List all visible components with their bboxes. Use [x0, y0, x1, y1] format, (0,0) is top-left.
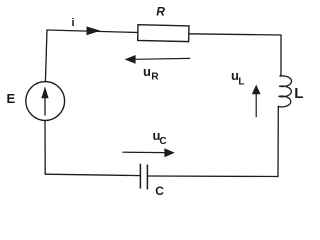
wire resistor to top-right corner [189, 34, 281, 35]
current arrow i on top wire [87, 26, 101, 35]
wire bottom left (capacitor to corner) [45, 174, 140, 175]
svg-text:C: C [159, 136, 166, 147]
u_R arrow (points left) [125, 55, 191, 64]
wire left upper (source to corner) [45, 30, 47, 82]
svg-text:R: R [156, 5, 165, 19]
resistor R [138, 25, 189, 42]
source E (circle with arrow) [26, 82, 65, 121]
svg-text:L: L [294, 85, 303, 102]
wire left lower (corner to source) [44, 121, 46, 175]
u_C arrow (points right) [122, 148, 175, 157]
wire right upper (corner to inductor) [280, 35, 281, 76]
wire top (corner to resistor) [47, 30, 138, 33]
capacitor C [140, 164, 147, 190]
wire bottom right (corner to capacitor) [148, 175, 278, 178]
svg-text:E: E [7, 91, 16, 106]
svg-text:i: i [72, 17, 75, 29]
svg-text:L: L [238, 76, 244, 87]
svg-text:u: u [143, 64, 151, 79]
svg-text:R: R [151, 72, 159, 83]
u_L arrow (points up) [252, 85, 261, 118]
svg-text:C: C [155, 184, 164, 198]
wire right lower (inductor to corner) [277, 106, 279, 176]
inductor L (coil) [278, 76, 292, 107]
